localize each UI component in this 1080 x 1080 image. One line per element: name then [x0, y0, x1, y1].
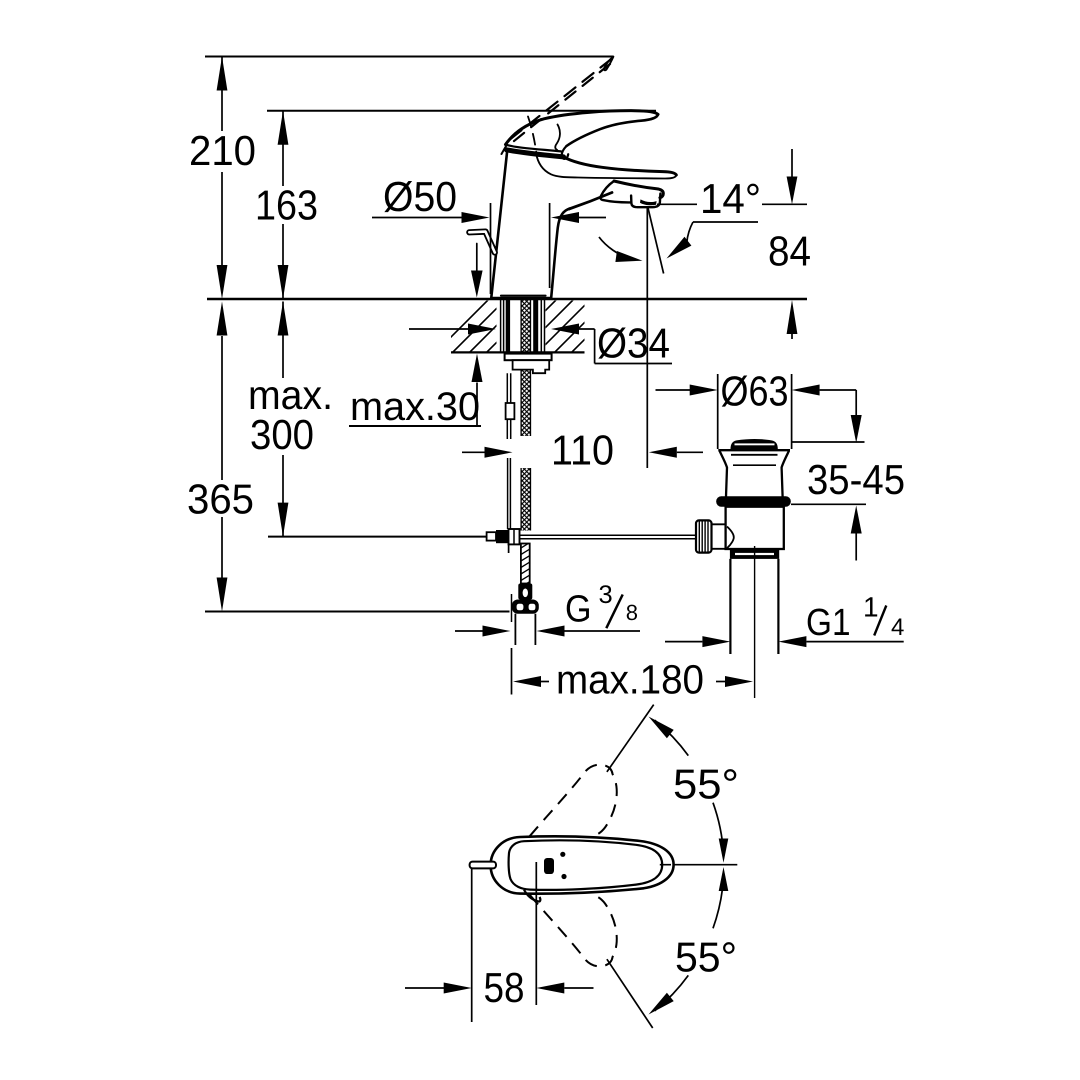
- Ø50 ext line right: [549, 203, 551, 288]
- svg-text:max.180: max.180: [556, 657, 704, 703]
- centerline: [660, 864, 738, 866]
- spout arm inner line: [536, 153, 676, 179]
- svg-text:8: 8: [626, 600, 638, 625]
- dim vertical 163/max300: [282, 111, 284, 537]
- shank right walls: [541, 300, 544, 352]
- svg-text:4: 4: [891, 614, 904, 641]
- lower arc outer segment: [655, 975, 689, 1010]
- pop-up rod lower: [508, 458, 511, 529]
- G3/8 ext line: [511, 594, 513, 622]
- 84 bottom arrow: [787, 300, 798, 334]
- body left edge: [491, 150, 507, 298]
- Ø50 ext line left: [490, 203, 492, 294]
- svg-text:Ø50: Ø50: [383, 173, 457, 220]
- arrow 163 down: [278, 265, 289, 299]
- svg-text:365: 365: [187, 476, 254, 523]
- tailpipe centerline: [754, 546, 756, 698]
- max.30 leader: [476, 383, 478, 427]
- DIM Ø50 / 14° / 84: [372, 149, 811, 468]
- handle hook: [562, 146, 568, 159]
- drain funnel sides: [720, 451, 790, 497]
- 84 top arrow: [787, 177, 798, 205]
- squiggle on handle: [555, 125, 560, 151]
- handle tip and underside: [567, 114, 659, 146]
- inner handle shape: [509, 840, 663, 890]
- pop-up rod top view: [470, 862, 496, 869]
- 14 arc left arrowhead: [615, 251, 642, 262]
- lever corner bump: [524, 890, 540, 902]
- 14 arc left segment: [599, 237, 630, 259]
- mounting nut: [513, 360, 550, 373]
- 14 arc right segment: [693, 221, 758, 223]
- knob stem: [712, 524, 727, 549]
- pop-up rod upper: [507, 373, 510, 403]
- pop-up rod mid: [507, 419, 510, 439]
- dashed pill up 55: [530, 765, 617, 837]
- svg-text:55°: 55°: [673, 761, 739, 808]
- coupling black band: [730, 549, 779, 559]
- actuation rod to drain: [520, 535, 697, 539]
- actuation rod connector small: [487, 532, 496, 540]
- dim ref line rod level: [268, 536, 488, 538]
- ext line from rod: [471, 869, 473, 1022]
- lower arc upper segment: [713, 877, 724, 928]
- diagonal 55 down: [607, 959, 653, 1028]
- dim line 163 top: [267, 110, 656, 112]
- svg-text:G: G: [565, 589, 592, 631]
- arc arrowhead lower at centerline: [719, 867, 729, 891]
- body shadow band: [507, 150, 564, 157]
- 58 dim: [405, 987, 444, 989]
- 35-45 lower arrow: [851, 506, 862, 534]
- aerator dark band: [640, 199, 657, 205]
- body right edge: [551, 208, 570, 297]
- svg-text:14°: 14°: [700, 175, 761, 222]
- 110 dim: [462, 451, 485, 453]
- svg-text:84: 84: [768, 228, 811, 275]
- stream vertical line: [646, 208, 648, 469]
- handle underside left: [506, 145, 562, 152]
- spout arm top edge: [564, 157, 677, 175]
- dim line top 210: [205, 56, 614, 58]
- Ø63 ext lines: [718, 374, 792, 449]
- svg-text:1: 1: [863, 592, 879, 623]
- aerator: [631, 194, 660, 208]
- washer: [505, 354, 552, 361]
- dot top: [560, 852, 565, 857]
- body wall arc: [727, 527, 734, 549]
- ext line from center: [535, 862, 537, 1005]
- G3/8 dim: [455, 630, 483, 632]
- arrow max300 down: [278, 503, 289, 537]
- 35-45 vertical top: [855, 390, 857, 415]
- arrow 210 up: [217, 57, 228, 91]
- 14 arc right arrowhead: [667, 237, 692, 259]
- svg-text:35-45: 35-45: [807, 456, 905, 503]
- upper arc arrowhead at diagonal: [649, 717, 674, 739]
- shank left walls: [501, 300, 504, 352]
- leader to 14 label: [657, 203, 807, 205]
- Ø50 arrow right: [462, 212, 490, 223]
- drain body: [726, 507, 784, 549]
- svg-text:55°: 55°: [675, 934, 737, 981]
- max.180 ext left: [511, 648, 513, 695]
- drain funnel top: [718, 449, 790, 451]
- svg-text:Ø63: Ø63: [721, 368, 789, 415]
- dashed raised handle lower edge: [511, 64, 610, 144]
- drain funnel rings: [731, 454, 778, 456]
- counter top line: [207, 298, 807, 300]
- arrow 163 up: [278, 111, 289, 145]
- dashed pill down 55: [530, 895, 617, 967]
- svg-text:58: 58: [484, 964, 525, 1011]
- svg-text:G1: G1: [806, 602, 851, 644]
- actuation rod connector black: [496, 530, 509, 543]
- arrow 365 down: [217, 578, 228, 612]
- TOPVIEW of handle rotation: [405, 705, 739, 1028]
- UNDERCOUNTER: [349, 300, 753, 703]
- Ø50 leader: [372, 217, 462, 219]
- Ø63 dim arrows: [656, 389, 691, 391]
- upper arc lower segment: [713, 803, 724, 854]
- 84 top arrow line: [791, 149, 793, 177]
- stream 14 deg slanted line: [648, 208, 664, 274]
- supply pipe end: [515, 614, 535, 645]
- svg-text:Ø34: Ø34: [597, 320, 670, 367]
- dot bottom: [561, 874, 566, 879]
- svg-text:110: 110: [551, 427, 614, 474]
- slab bottom line: [451, 351, 585, 353]
- rod coupling: [506, 403, 515, 419]
- cartridge blob: [544, 858, 554, 874]
- shank left black bar: [506, 300, 510, 352]
- pop-up lever outline: [469, 232, 495, 253]
- ref line flange bottom: [791, 503, 866, 505]
- pop-up rod below crossing: [508, 545, 510, 554]
- threaded stud through counter: [521, 300, 531, 436]
- shank right black bar: [533, 300, 538, 352]
- arrow 210 down: [217, 265, 228, 299]
- FAUCET side view: [469, 57, 676, 298]
- svg-text:210: 210: [189, 127, 256, 174]
- hose ferrule: [518, 584, 532, 600]
- base bottom: [491, 296, 551, 298]
- counter hatching: [436, 300, 624, 352]
- max.30 arrow: [472, 354, 483, 382]
- threaded stud lower segment: [521, 468, 531, 531]
- upper arc outer segment: [655, 720, 689, 755]
- svg-text:3: 3: [599, 581, 613, 609]
- dashed raised handle upper edge: [506, 59, 612, 143]
- handle top edge: [506, 111, 659, 145]
- adjuster knob: [696, 520, 712, 552]
- lower arc arrowhead at diagonal: [649, 993, 674, 1015]
- arrow 365 up: [217, 302, 228, 336]
- Ø34 dim arrows: [409, 328, 468, 330]
- svg-text:163: 163: [255, 182, 318, 229]
- dashed handle tip: [604, 57, 614, 71]
- DIMS-LEFT: [187, 57, 807, 612]
- tailpipe: [730, 559, 778, 654]
- spout head left edge: [600, 181, 630, 202]
- lever push arrow: [471, 271, 483, 298]
- G3/8 nut: [512, 600, 539, 614]
- arrow at right ext: [551, 212, 579, 223]
- diagonal 55 up: [607, 705, 654, 772]
- dashed handle butt: [502, 133, 516, 154]
- dim line bottom 365: [205, 611, 510, 613]
- outer capsule: [491, 836, 674, 893]
- dash crossing handle: [528, 117, 536, 153]
- arrow max300 up: [278, 302, 289, 336]
- spout head top curve: [614, 181, 663, 198]
- lever push arrow line: [476, 244, 478, 272]
- G1 1/4 dim: [665, 641, 702, 643]
- max.180 arrows: [513, 676, 541, 687]
- pop-up lever inner: [469, 232, 495, 253]
- svg-text:max.30: max.30: [350, 385, 480, 429]
- spout underside curve: [569, 193, 612, 210]
- flex hose: [521, 544, 530, 584]
- knob knurling: [699, 521, 708, 552]
- drain cap knob: [731, 439, 778, 449]
- drain flange black: [716, 496, 791, 506]
- svg-text:300: 300: [250, 411, 314, 458]
- arc arrowhead upper at centerline: [719, 839, 729, 863]
- DRAIN assembly: [656, 368, 906, 699]
- dim vertical 210/365: [221, 57, 223, 579]
- ref line flange top: [792, 441, 865, 443]
- actuation rod clamp: [509, 529, 520, 544]
